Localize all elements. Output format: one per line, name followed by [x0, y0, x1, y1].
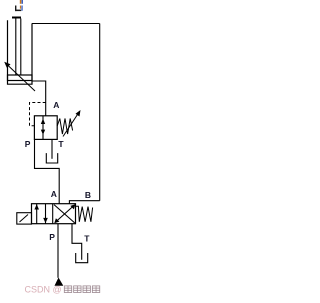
svg-text:A: A	[53, 100, 59, 110]
wire V1 T port to tank	[51, 139, 53, 158]
valve V2 position divider	[52, 204, 54, 224]
wire V1 P port down and across to valve V2 A	[35, 139, 60, 203]
cylinder C1 piston	[8, 75, 33, 81]
wire cylinder port to valve V1 A	[32, 81, 46, 116]
valve V2 directional valve body	[32, 204, 76, 224]
valve V1 reducing valve body	[34, 116, 57, 140]
cropped text sliver top	[15, 0, 23, 11]
wire cylinder top to right rail	[32, 23, 100, 25]
cylinder C1 rod end bar	[12, 17, 21, 19]
svg-text:P: P	[49, 232, 55, 242]
tank T2	[76, 253, 88, 263]
svg-text:T: T	[84, 234, 90, 244]
adjust arrow across cylinder	[4, 62, 35, 91]
valve V1 adjust arrow	[63, 110, 81, 137]
svg-text:CSDN @: CSDN @	[25, 284, 62, 294]
svg-text:A: A	[51, 189, 57, 199]
tank T1	[46, 153, 57, 163]
spring valve V2	[76, 206, 93, 222]
valve V2 right position crossed paths	[54, 204, 75, 223]
wire V2 T port to tank	[72, 224, 82, 260]
valve V2 left position arrows	[34, 204, 47, 224]
cylinder C1 piston rod	[16, 19, 21, 76]
pressure source symbol	[55, 278, 64, 286]
wire V2 P port to source	[57, 224, 59, 278]
valve V1 flow path	[41, 116, 45, 140]
svg-text:P: P	[25, 139, 31, 149]
wire right rail	[99, 24, 101, 201]
cylinder C1 body	[8, 20, 33, 84]
pilot line (dashed) valve V1	[30, 103, 46, 126]
valve V1 spring	[57, 119, 72, 135]
solenoid actuator valve V2	[17, 213, 32, 224]
svg-text:T: T	[58, 139, 64, 149]
svg-text:B: B	[85, 190, 91, 200]
wire rail to valve B port	[69, 201, 99, 204]
